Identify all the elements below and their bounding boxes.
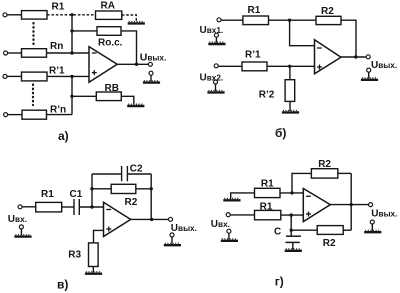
wire feedback up (292, 173, 311, 193)
svg-text:R’2: R’2 (259, 90, 275, 101)
wire to inverting input (47, 52, 90, 54)
resistor Rn (22, 49, 47, 58)
svg-text:R1: R1 (52, 2, 65, 13)
svg-text:Uвх2.: Uвх2. (200, 72, 224, 83)
node junction R1/R2 (288, 19, 291, 22)
svg-text:R1: R1 (248, 5, 261, 16)
svg-text:Ro.c.: Ro.c. (98, 37, 123, 48)
ground (164, 243, 181, 245)
svg-text:R1: R1 (261, 179, 274, 190)
terminal Uvx2 (214, 64, 218, 68)
wire (269, 19, 317, 21)
wire feedback right (150, 174, 152, 219)
terminal output (148, 62, 152, 66)
node junction R2 lower (290, 229, 293, 232)
resistor R1 (36, 202, 62, 212)
svg-text:Uвых.: Uвых. (140, 52, 166, 64)
wire down to C (290, 215, 292, 236)
minus sign (306, 195, 311, 197)
ground (364, 230, 381, 232)
wire non-inverting bus (71, 76, 73, 114)
wire (72, 95, 96, 97)
svg-text:R2: R2 (125, 197, 138, 208)
resistor Ro.c. (97, 27, 121, 36)
terminal input n (4, 51, 8, 55)
ground (14, 235, 31, 237)
svg-text:R2: R2 (321, 6, 334, 17)
svg-text:г): г) (275, 274, 284, 288)
wire upper R1 to ground (231, 193, 255, 199)
ground (85, 272, 102, 274)
terminal input n' (4, 113, 8, 117)
terminal input (18, 205, 22, 209)
resistor R2 (316, 16, 341, 24)
wire (8, 114, 22, 116)
svg-text:Rn: Rn (50, 41, 63, 52)
svg-text:а): а) (58, 129, 69, 143)
wire (228, 233, 230, 239)
wire (230, 214, 254, 216)
resistor R1 (22, 11, 48, 20)
node output junction (135, 63, 138, 66)
svg-text:C1: C1 (70, 189, 83, 200)
node output junction (150, 218, 153, 221)
wire (371, 224, 373, 231)
node output junction (354, 55, 357, 58)
resistor R'1 (242, 62, 267, 71)
wire to inverting input (290, 20, 315, 46)
op-amp U3 (104, 202, 131, 236)
wire to non-inverting input (281, 214, 304, 216)
ground (127, 104, 144, 106)
wire non-inverting to R3 (94, 230, 104, 243)
wire (79, 206, 103, 208)
resistor RA (96, 11, 122, 19)
terminal output ground (170, 233, 174, 237)
node junction after C1 (90, 205, 93, 208)
resistor R2 upper (311, 169, 337, 178)
wire (368, 72, 370, 78)
wire (171, 237, 173, 244)
terminal input ground (19, 225, 23, 229)
ground (221, 239, 238, 241)
wire (7, 14, 22, 16)
svg-text:C: C (274, 226, 281, 237)
wire (215, 84, 217, 91)
wire (289, 101, 291, 111)
wire (92, 267, 94, 273)
resistor R'2 (285, 80, 295, 102)
wire (150, 75, 152, 81)
svg-text:R’n: R’n (50, 104, 66, 115)
svg-text:Uвых.: Uвых. (171, 223, 197, 234)
minus sign (317, 47, 322, 49)
ground (128, 22, 145, 24)
node junction Roc (70, 29, 73, 32)
wire (20, 229, 22, 235)
terminal output ground (370, 220, 374, 224)
svg-text:R2: R2 (323, 238, 336, 249)
wire output (330, 204, 368, 206)
wire to non-inverting input (267, 65, 315, 67)
terminal Uvx (226, 213, 230, 217)
op-amp U1 (89, 47, 117, 83)
capacitor C2 (121, 166, 123, 181)
resistor R2 (111, 184, 136, 193)
resistor RB (96, 92, 121, 101)
op-amp U4 (303, 189, 330, 222)
terminal output ground (149, 71, 153, 75)
wire output (131, 218, 169, 220)
node junction R2 left (90, 187, 93, 190)
ground (361, 78, 378, 80)
op-amp U2 (315, 40, 342, 74)
resistor R1 (243, 16, 269, 25)
wire to inverting input (280, 192, 303, 194)
wire dashed RA to ground (122, 15, 137, 22)
node junction RB (70, 95, 73, 98)
resistor R3 (89, 243, 99, 267)
wire R2 lower to right vert (343, 229, 351, 231)
node junction R'1 bus (70, 75, 73, 78)
svg-text:R1: R1 (260, 201, 273, 212)
ground (208, 42, 225, 44)
wire (62, 206, 74, 208)
terminal output (369, 203, 373, 207)
terminal output ground (367, 68, 371, 72)
ground (282, 111, 299, 113)
terminal input 1' (3, 74, 7, 78)
node junction Rn bus (70, 51, 73, 54)
terminal Uvx ground (227, 229, 231, 233)
resistor R2 lower (317, 226, 343, 235)
wire (22, 206, 36, 208)
minus sign (106, 209, 111, 211)
resistor R1 upper (255, 188, 281, 197)
wire (7, 75, 22, 77)
wire right vertical (350, 173, 352, 230)
wire output (341, 56, 366, 58)
wire (8, 52, 22, 54)
resistor R'n (22, 110, 47, 119)
plus sign (317, 66, 322, 68)
dotted separator 1 (32, 23, 34, 46)
capacitor C (286, 235, 301, 237)
wire (72, 30, 97, 32)
wire (47, 114, 73, 116)
wire (215, 37, 217, 42)
svg-text:R’1: R’1 (245, 49, 261, 60)
wire R2 to output (341, 20, 356, 57)
resistor R1 lower (255, 210, 281, 219)
ground (223, 198, 240, 200)
wire to non-inverting input (47, 75, 89, 77)
svg-text:Uвых.: Uвых. (371, 60, 397, 71)
wire R2 to right vert (338, 172, 351, 174)
minus sign (92, 52, 97, 54)
svg-text:б): б) (275, 126, 286, 140)
svg-text:Uвых.: Uвых. (371, 208, 397, 219)
wire to R2 lower (291, 229, 317, 231)
svg-text:R1: R1 (41, 189, 54, 200)
plus sign (92, 72, 97, 74)
node junction non-inverting (290, 213, 293, 216)
wire dashed R1 to RA (47, 14, 96, 16)
terminal Uvx2 ground (214, 80, 218, 84)
svg-text:Uвх.: Uвх. (211, 219, 230, 230)
svg-text:RB: RB (105, 83, 119, 94)
terminal output (169, 217, 173, 221)
svg-text:C2: C2 (130, 163, 143, 174)
terminal input 1 (3, 13, 7, 17)
svg-text:Uвх1.: Uвх1. (200, 25, 224, 36)
wire (289, 66, 291, 79)
node output junction (350, 203, 353, 206)
ground (285, 249, 302, 251)
plus sign (106, 228, 111, 230)
svg-text:R’1: R’1 (49, 66, 65, 77)
wire R2 rail (92, 188, 151, 190)
terminal output (366, 55, 370, 59)
svg-text:Uвх.: Uвх. (8, 214, 27, 225)
terminal Uvx1 ground (214, 33, 218, 37)
wire (292, 242, 294, 249)
wire output (117, 63, 148, 65)
ground (207, 91, 224, 93)
node junction inverting (290, 191, 293, 194)
ground (143, 81, 160, 83)
wire top rail C2 (92, 173, 122, 175)
node junction R'2 (288, 65, 291, 68)
wire inverting bus (71, 15, 73, 53)
node junction R1/RA (70, 13, 73, 16)
plus sign (306, 213, 311, 215)
wire feedback left (91, 174, 93, 207)
dotted separator 2 (32, 85, 34, 106)
wire (221, 19, 243, 21)
resistor R'1 (22, 72, 48, 81)
capacitor C1 (73, 199, 75, 215)
wire feedback (121, 31, 137, 64)
svg-text:RA: RA (101, 0, 115, 11)
node junction R2 right (150, 187, 153, 190)
svg-text:R3: R3 (68, 249, 81, 260)
svg-text:R2: R2 (318, 159, 331, 170)
svg-text:в): в) (57, 278, 68, 292)
wire (218, 65, 242, 67)
terminal Uvx1 (217, 18, 221, 22)
wire RB to ground (121, 96, 134, 104)
